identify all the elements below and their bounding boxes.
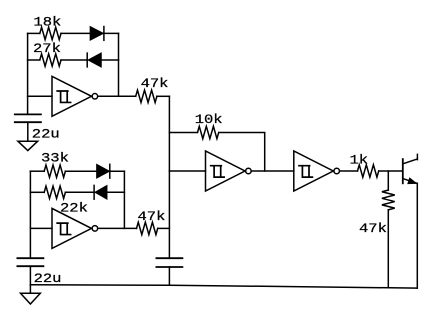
svg-text:47k: 47k bbox=[138, 210, 166, 224]
wire D1 to right rail bbox=[104, 32, 119, 34]
ground for C1 bbox=[18, 141, 38, 150]
wire left rail oscillator 2 bbox=[29, 171, 31, 258]
wire U4 output bbox=[340, 170, 358, 172]
wire C2 ground lead bbox=[29, 285, 31, 293]
U3 hysteresis glyph bbox=[211, 166, 224, 177]
svg-text:33k: 33k bbox=[41, 152, 69, 166]
wire left rail oscillator 1 bbox=[27, 33, 29, 114]
label 22u (C1) bbox=[32, 128, 60, 142]
wire D2 to right rail bbox=[101, 59, 119, 61]
wire branch 1 left lead bbox=[28, 32, 40, 34]
wire C3 to ground rail bbox=[168, 267, 170, 285]
diode D1 (points right) bbox=[90, 27, 104, 41]
wire inverter U1 input bbox=[28, 95, 52, 97]
svg-text:22u: 22u bbox=[32, 128, 60, 142]
svg-text:27k: 27k bbox=[33, 42, 61, 56]
capacitor C3 mixing node bbox=[156, 258, 182, 267]
resistor R5 1k bbox=[358, 165, 379, 177]
svg-text:18k: 18k bbox=[33, 16, 61, 30]
op-amp U3 schmitt inverter bbox=[206, 151, 252, 191]
wire base node to R6 bbox=[387, 171, 389, 190]
wire C2 to ground rail bbox=[29, 266, 31, 285]
wire U1 output bbox=[98, 95, 136, 97]
label 47k (R9) bbox=[138, 210, 166, 224]
transistor Q1 emitter with arrow bbox=[404, 178, 418, 184]
wire R2 to D2 bbox=[61, 59, 87, 61]
wire ground rail bottom bbox=[30, 285, 417, 288]
wire D4 to right rail osc2 bbox=[107, 191, 125, 193]
label 27k bbox=[33, 42, 61, 56]
svg-text:10k: 10k bbox=[195, 113, 223, 127]
wire R6 to ground rail bbox=[387, 210, 389, 288]
wire inverter U2 input bbox=[30, 227, 52, 229]
op-amp U2 schmitt inverter bbox=[52, 208, 98, 248]
U2 hysteresis glyph bbox=[57, 223, 70, 234]
wire R4 to feedback corner bbox=[219, 133, 265, 172]
label 18k bbox=[33, 16, 61, 30]
resistor R1 18k bbox=[40, 27, 61, 39]
op-amp U4 schmitt inverter bbox=[294, 151, 340, 191]
transistor Q1 base bar bbox=[402, 159, 404, 183]
wire emitter down bbox=[416, 183, 418, 288]
wire D3 to right rail osc2 bbox=[110, 170, 125, 172]
svg-text:47k: 47k bbox=[141, 77, 169, 91]
wire C1 to ground bbox=[27, 122, 29, 141]
wire R5 to base bbox=[379, 170, 402, 172]
wire R3 to mixing rail bbox=[157, 95, 170, 97]
diode D2 (points left) bbox=[87, 53, 101, 67]
transistor Q1 collector bbox=[404, 154, 418, 163]
wire R7 to D3 bbox=[65, 170, 97, 172]
wire branch 1 left lead osc2 bbox=[30, 170, 44, 172]
wire R1 to D1 bbox=[61, 32, 90, 34]
resistor R9 47k bbox=[137, 222, 158, 234]
resistor R6 47k vertical bbox=[382, 190, 395, 210]
wire 10k branch left bbox=[169, 132, 197, 134]
label 22u (C2) bbox=[34, 272, 62, 286]
label 22k bbox=[60, 202, 88, 216]
capacitor C2 22u bbox=[17, 258, 43, 266]
resistor R2 27k bbox=[40, 54, 61, 66]
label 1k bbox=[350, 154, 369, 168]
resistor R4 10k bbox=[198, 126, 219, 138]
op-amp U1 schmitt inverter bbox=[52, 76, 98, 116]
wire right rail oscillator 1 bbox=[118, 33, 120, 96]
U4 hysteresis glyph bbox=[299, 166, 312, 177]
svg-text:1k: 1k bbox=[350, 154, 369, 168]
U1 hysteresis glyph bbox=[57, 91, 70, 102]
label 33k bbox=[41, 152, 69, 166]
label 47k (R6) bbox=[359, 222, 387, 236]
wire U2 output bbox=[98, 227, 137, 229]
label 10k bbox=[195, 113, 223, 127]
ground symbol bottom left bbox=[21, 293, 41, 304]
wire right rail oscillator 2 bbox=[123, 171, 125, 228]
diode D4 (points left) bbox=[94, 185, 107, 199]
resistor R8 22k bbox=[44, 186, 65, 198]
wire branch 2 left lead osc2 bbox=[30, 191, 44, 193]
resistor R7 33k bbox=[44, 165, 65, 177]
wire branch 2 left lead bbox=[28, 59, 40, 61]
wire R8 to D4 bbox=[65, 191, 94, 193]
wire R9 to mixing rail bbox=[158, 227, 170, 229]
wire mixing rail bbox=[168, 96, 170, 258]
resistor R3 47k bbox=[136, 90, 157, 102]
wire inverter U3 input bbox=[169, 170, 205, 172]
diode D3 (points right) bbox=[97, 164, 110, 178]
wire U3 output bbox=[251, 170, 293, 172]
label 47k (R3) bbox=[141, 77, 169, 91]
capacitor C1 22u bbox=[15, 114, 41, 122]
svg-text:47k: 47k bbox=[359, 222, 387, 236]
